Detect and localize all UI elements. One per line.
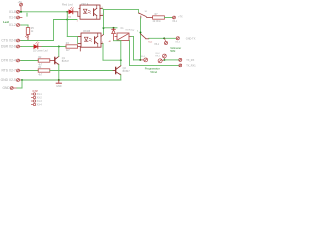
resistor R4 <box>38 69 50 72</box>
svg-text:BC547: BC547 <box>62 61 70 63</box>
pin X1-2 <box>17 24 22 27</box>
svg-text:Q1: Q1 <box>62 57 66 60</box>
pin X4-1 <box>140 58 147 62</box>
pin X3-2 <box>31 96 35 98</box>
svg-text:GND: GND <box>56 85 62 88</box>
wire GND pin to bus <box>17 80 22 88</box>
wire to relay diode <box>104 27 118 29</box>
diode D3 <box>112 28 116 41</box>
svg-text:OK1A: OK1A <box>81 2 88 6</box>
junction TX_RX wire <box>164 59 166 61</box>
pin X1-6 <box>17 16 22 19</box>
wire opto OK1A to OK1B pin4 <box>101 35 104 37</box>
svg-text:X5-1: X5-1 <box>154 44 160 46</box>
svg-text:GND-TX: GND-TX <box>186 37 196 40</box>
svg-text:DTR X2-4: DTR X2-4 <box>1 59 16 63</box>
wire R2 to Q1 base <box>50 60 55 62</box>
junction vertical D1 to wire <box>66 19 68 21</box>
relay K1 <box>115 33 131 41</box>
wire S2 output to X5 pins <box>149 37 176 39</box>
svg-text:1: 1 <box>137 31 138 33</box>
wire TX_RX <box>165 59 179 61</box>
svg-text:5V Relay: 5V Relay <box>125 29 135 31</box>
junction GND pin branch <box>21 79 23 81</box>
svg-text:Programator: Programator <box>145 66 160 70</box>
svg-text:GND X2-5: GND X2-5 <box>1 78 16 82</box>
pin DTR X2-4 <box>17 59 22 62</box>
wire net X1-8 to D1 <box>21 11 67 13</box>
wire R4 to Q2 base <box>50 70 116 72</box>
LED D1 red led <box>67 7 73 14</box>
svg-text:3: 3 <box>102 42 103 44</box>
svg-text:R5: R5 <box>31 28 35 30</box>
junction +5V/X1-8 <box>20 11 22 13</box>
resistor R2 <box>38 59 50 62</box>
wire D1 anode branch down <box>66 12 68 37</box>
svg-text:+TX: +TX <box>178 15 183 18</box>
wire opto OK1B emitter to Q2 collector <box>103 44 121 61</box>
wire DTR to R2 <box>21 60 38 62</box>
junction opto column to diode wire <box>103 27 105 29</box>
svg-text:X1-8: X1-8 <box>9 10 16 14</box>
LED D2 green led <box>34 42 42 49</box>
pin X3-1 <box>31 93 35 95</box>
svg-text:K1: K1 <box>121 27 125 30</box>
wire Q1 emitter down <box>58 65 60 80</box>
svg-text:BC547: BC547 <box>123 71 131 73</box>
svg-text:X3-4: X3-4 <box>37 104 43 107</box>
pin X5-1 <box>164 38 167 44</box>
pin X3-4 <box>31 103 35 105</box>
wire R7 to pin X6-1 <box>164 17 172 19</box>
pin X4-2 <box>158 59 164 63</box>
svg-text:D1: D1 <box>68 16 72 18</box>
wire relay bottom to Q2 collector <box>114 41 121 66</box>
pin GND <box>10 87 17 90</box>
wire to opto OK1B pin1 <box>67 36 77 38</box>
opto-coupler OK1A <box>80 5 103 19</box>
svg-text:Q2: Q2 <box>123 67 127 70</box>
pin CTS X2-8 <box>17 39 22 42</box>
pin X5-2 <box>176 37 179 40</box>
resistor R3 <box>66 45 80 51</box>
svg-text:RTS X2-7: RTS X2-7 <box>1 69 16 73</box>
pin X1-8 <box>17 10 22 13</box>
wire opto OK1A output net <box>103 9 139 35</box>
svg-text:OK1B: OK1B <box>83 29 90 33</box>
wire relay switched net A <box>130 41 179 66</box>
svg-text:CTS X2-8: CTS X2-8 <box>1 39 16 43</box>
opto-coupler OK1B <box>78 33 104 47</box>
svg-text:50M: 50M <box>170 49 175 53</box>
svg-text:TX_RX1: TX_RX1 <box>186 65 196 68</box>
pin X6-1 <box>173 16 176 19</box>
svg-text:X1-6: X1-6 <box>9 16 16 20</box>
wire relay pin2 down <box>131 37 140 60</box>
svg-text:A1: A1 <box>109 40 112 43</box>
svg-text:X5-2: X5-2 <box>175 41 180 43</box>
svg-text:Led: Led <box>3 20 9 24</box>
svg-text:4: 4 <box>102 35 103 37</box>
supply pin +5V <box>20 3 23 11</box>
pin TX_RX1 <box>179 64 182 67</box>
svg-text:3: 3 <box>101 14 102 16</box>
svg-text:X1-2: X1-2 <box>9 23 16 27</box>
wire Q2 emitter down <box>120 75 122 80</box>
ground symbol <box>56 80 61 83</box>
pin top feed <box>163 54 167 60</box>
resistor R5 <box>26 28 29 41</box>
svg-text:GND: GND <box>2 86 10 90</box>
switch S2 relay contact bottom <box>141 34 149 39</box>
pin GND X2-5 <box>17 79 22 82</box>
svg-text:S1-2: S1-2 <box>148 42 152 44</box>
svg-text:4k7: 4k7 <box>66 50 70 52</box>
wire X1-2 to R5 <box>21 25 28 27</box>
svg-text:1k: 1k <box>31 31 34 33</box>
svg-text:+5V: +5V <box>18 1 23 4</box>
wire D2 to R3 <box>42 46 66 48</box>
transistor Q1 <box>55 56 59 64</box>
svg-text:DSR X2-6: DSR X2-6 <box>1 45 16 49</box>
wire stub net speck <box>26 13 28 16</box>
wire RTS to R4 <box>21 70 38 72</box>
svg-text:4k7: 4k7 <box>38 74 42 76</box>
switch S1 relay contact top <box>139 10 153 18</box>
svg-text:S1: S1 <box>145 11 148 13</box>
svg-text:D2 Green Led: D2 Green Led <box>33 50 48 53</box>
junction node D1 anode <box>66 11 68 13</box>
junction Q1 emitter to bus <box>58 79 60 81</box>
pin TX_RX <box>179 58 182 61</box>
svg-text:1: 1 <box>77 21 78 23</box>
svg-text:TX_RX: TX_RX <box>186 59 194 62</box>
svg-text:X6-1: X6-1 <box>172 21 178 23</box>
svg-text:R9-1: R9-1 <box>155 56 160 58</box>
junction on collector column <box>120 59 122 61</box>
wire Q1 collector up <box>58 47 60 57</box>
svg-text:22 Ohm: 22 Ohm <box>153 21 161 23</box>
junction Q1 collector <box>58 46 60 48</box>
junction pin X4-1 <box>139 59 141 61</box>
junction diode D3 top <box>113 27 115 29</box>
resistor R7 <box>153 16 165 19</box>
pin RTS X2-7 <box>17 69 22 72</box>
junction S2 tap <box>140 32 142 34</box>
wire ground bus <box>22 79 121 81</box>
wire DSR to D2 <box>21 46 34 48</box>
junction X5-1 stub <box>163 37 165 39</box>
arrow marks at R5 bottom <box>25 35 28 38</box>
svg-text:4: 4 <box>101 7 102 9</box>
wire D1 cathode to opto OK1A pins <box>73 9 80 17</box>
wire S1 throw down to S2 <box>140 18 142 60</box>
pin DSR X2-6 <box>17 45 22 48</box>
wire CTS net to opto OK1A cathode loop <box>21 20 77 41</box>
svg-text:50mA: 50mA <box>150 70 157 74</box>
transistor Q2 <box>113 66 121 75</box>
svg-text:Red Led: Red Led <box>62 2 73 6</box>
pin X3-3 <box>31 100 35 102</box>
